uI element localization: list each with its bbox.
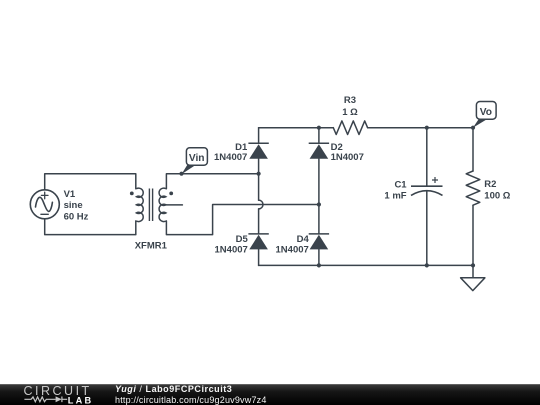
flag Vo xyxy=(473,102,496,128)
wire C1 branch top xyxy=(426,128,428,187)
svg-text:1N4007: 1N4007 xyxy=(276,245,309,256)
capacitor C1 xyxy=(411,177,443,195)
label D2 value xyxy=(331,142,364,163)
wire hop over center wire xyxy=(259,200,263,209)
svg-text:1 Ω: 1 Ω xyxy=(342,107,358,118)
svg-text:D4: D4 xyxy=(297,234,310,245)
wire ground stem xyxy=(472,265,474,277)
svg-text:XFMR1: XFMR1 xyxy=(135,240,168,251)
label R3 value xyxy=(342,95,358,118)
node dot center wire to right branch xyxy=(317,202,321,206)
node dot C1 top rail xyxy=(425,126,429,130)
svg-text:1 mF: 1 mF xyxy=(384,190,406,201)
node dot D4 bottom rail xyxy=(317,263,321,267)
svg-text:1N4007: 1N4007 xyxy=(214,152,247,163)
wire XFMR1 secondary bottom to bridge center xyxy=(166,205,319,235)
svg-text:V1: V1 xyxy=(64,189,76,200)
wire bottom rail xyxy=(259,264,473,266)
label D1 value xyxy=(214,142,248,163)
diode D5 xyxy=(248,234,268,250)
label V1 value xyxy=(64,189,89,223)
footer logo resistor-diode glyph xyxy=(24,397,67,403)
node dot Vo attach xyxy=(471,126,475,130)
svg-text:100 Ω: 100 Ω xyxy=(484,191,510,202)
wire top rail left segment xyxy=(259,127,334,129)
diode D1 xyxy=(248,143,268,159)
node dot ground junction xyxy=(471,263,475,267)
ground xyxy=(461,278,485,291)
wire center tap stub xyxy=(166,204,183,206)
wire right branch D4 bottom lead xyxy=(318,250,320,266)
voltage source V1 xyxy=(30,190,59,219)
wire R2 top lead xyxy=(472,128,474,171)
transformer XFMR1 primary winding xyxy=(136,188,143,221)
diode D4 xyxy=(309,234,329,250)
svg-text:sine: sine xyxy=(64,200,83,211)
wire XFMR1 primary bottom to V1 bottom xyxy=(45,219,136,235)
label R2 value xyxy=(484,179,510,202)
wire left branch D1 to hop xyxy=(258,159,260,200)
transformer XFMR1 primary phase dot xyxy=(130,192,134,196)
svg-text:R3: R3 xyxy=(344,95,356,106)
svg-text:1N4007: 1N4007 xyxy=(215,245,248,256)
node dot secondary top to left branch xyxy=(257,172,261,176)
svg-text:Vin: Vin xyxy=(189,153,205,164)
svg-text:C1: C1 xyxy=(394,179,407,190)
svg-text:60 Hz: 60 Hz xyxy=(64,212,89,223)
node dot C1 bottom rail xyxy=(425,263,429,267)
wire left branch hop to D5 xyxy=(258,209,260,234)
svg-text:R2: R2 xyxy=(484,179,496,190)
transformer XFMR1 secondary winding xyxy=(159,188,166,221)
resistor R2 xyxy=(466,171,480,205)
label C1 value xyxy=(384,179,407,201)
svg-text:LAB: LAB xyxy=(68,395,93,405)
wire left branch D5 bottom to rail corner xyxy=(258,250,260,266)
wire right branch D2 to D4 xyxy=(318,159,320,234)
label D4 value xyxy=(276,234,310,256)
transformer XFMR1 secondary phase dot xyxy=(169,192,173,196)
transformer XFMR1 core xyxy=(149,189,152,222)
diode D2 xyxy=(309,143,329,159)
svg-text:http://circuitlab.com/cu9g2uv9: http://circuitlab.com/cu9g2uv9vw7z4 xyxy=(115,395,267,405)
label D5 value xyxy=(215,234,249,256)
svg-text:Yugi / Labo9FCPCircuit3: Yugi / Labo9FCPCircuit3 xyxy=(115,384,232,394)
node dot D2 top rail xyxy=(317,126,321,130)
wire left branch D1 top lead xyxy=(258,128,260,144)
resistor R3 xyxy=(333,121,367,135)
node dot Vin attach xyxy=(179,172,183,176)
wire right branch D2 top lead xyxy=(318,128,320,144)
svg-text:1N4007: 1N4007 xyxy=(331,152,364,163)
flag Vin xyxy=(182,148,208,175)
wire R2 bottom lead xyxy=(472,205,474,265)
svg-text:D5: D5 xyxy=(236,234,249,245)
wire C1 branch bottom xyxy=(426,191,428,265)
wire top rail right segment xyxy=(368,127,473,129)
wire XFMR1 secondary top to node A xyxy=(166,174,258,189)
wire V1 top to XFMR1 primary top xyxy=(45,174,136,190)
svg-text:Vo: Vo xyxy=(480,107,492,118)
